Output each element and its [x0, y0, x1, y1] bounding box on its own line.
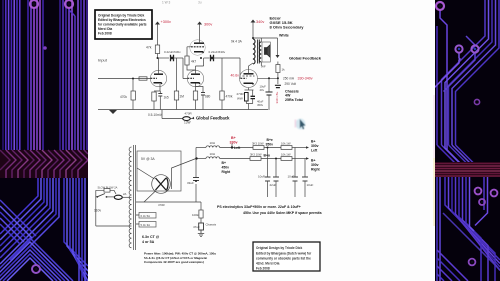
svg-text:for commercially available par: for commercially available parts: [98, 23, 147, 27]
svg-text:Left: Left: [234, 146, 241, 150]
svg-text:B+e: B+e: [267, 138, 273, 142]
svg-text:330 v B+: 330 v B+: [275, 91, 279, 103]
svg-text:6.3v CT @: 6.3v CT @: [142, 235, 160, 239]
svg-text:9k 4 3A: 9k 4 3A: [231, 40, 243, 44]
svg-text:470R: 470R: [185, 112, 193, 116]
svg-text:Components 42-18UT are good ex: Components 42-18UT are good examples): [144, 260, 204, 264]
svg-text:42nd. Merci Dia: 42nd. Merci Dia: [256, 262, 280, 266]
svg-text:100k: 100k: [192, 213, 199, 217]
svg-text:1k5: 1k5: [164, 96, 169, 100]
svg-text:Edited by Bhargava (Dutch www): Edited by Bhargava (Dutch www) for: [256, 252, 312, 256]
svg-text:Global Feedback: Global Feedback: [289, 56, 322, 61]
svg-text:Chassis: Chassis: [206, 223, 217, 227]
svg-text:470R: 470R: [158, 203, 165, 207]
svg-text:10uF: 10uF: [258, 175, 265, 179]
svg-text:4k7: 4k7: [191, 60, 196, 64]
svg-text:110v: 110v: [94, 208, 101, 212]
svg-text:270R: 270R: [237, 92, 245, 96]
svg-text:B+: B+: [311, 159, 315, 163]
svg-text:Original Design by Triode Dick: Original Design by Triode Dick: [98, 14, 144, 18]
svg-text:1k: 1k: [282, 68, 286, 72]
svg-text:Feb 2008: Feb 2008: [98, 32, 112, 36]
svg-text:10H: 10H: [210, 141, 216, 145]
svg-text:680: 680: [205, 95, 211, 99]
svg-text:Right: Right: [311, 168, 321, 172]
svg-text:3K3 10W: 3K3 10W: [252, 142, 264, 146]
svg-text:Edited by Bhargava Electronics: Edited by Bhargava Electronics: [98, 18, 146, 22]
svg-text:Left: Left: [311, 149, 318, 153]
svg-text:+300v: +300v: [161, 20, 172, 24]
svg-text:WW: WW: [237, 97, 243, 101]
svg-text:0.22uF/630v: 0.22uF/630v: [209, 50, 226, 54]
svg-text:Feb 2008: Feb 2008: [256, 267, 270, 271]
svg-text:10k 1W: 10k 1W: [281, 153, 291, 157]
svg-text:B+: B+: [222, 161, 226, 165]
svg-text:B+o: B+o: [264, 154, 271, 158]
svg-text:450v: 450v: [222, 166, 230, 170]
svg-text:SLOW BLOW 2A: SLOW BLOW 2A: [98, 185, 118, 189]
svg-text:5V @ 3A: 5V @ 3A: [141, 157, 155, 161]
svg-text:40.6v: 40.6v: [231, 74, 240, 78]
svg-text:290 Volt: 290 Volt: [285, 82, 297, 86]
svg-text:Input: Input: [98, 58, 108, 63]
svg-text:White: White: [279, 34, 289, 38]
svg-text:450v. Use you 440v Solen MKP i: 450v. Use you 440v Solen MKP if space pe…: [243, 211, 322, 215]
svg-text:B+: B+: [231, 136, 236, 140]
svg-text:4 or 5A: 4 or 5A: [142, 240, 155, 244]
svg-text:10k 1W: 10k 1W: [281, 142, 291, 146]
svg-text:5.0v 3A: 5.0v 3A: [141, 223, 151, 227]
svg-text:250 mA: 250 mA: [283, 76, 295, 80]
svg-text:Merci Dia: Merci Dia: [98, 27, 112, 31]
svg-text:40v: 40v: [260, 88, 265, 92]
svg-text:10uF: 10uF: [307, 183, 314, 187]
svg-text:330v: 330v: [230, 141, 238, 145]
svg-text:340v: 340v: [256, 20, 264, 24]
svg-text:470k: 470k: [226, 95, 233, 99]
svg-text:0.22uF/630v: 0.22uF/630v: [164, 50, 181, 54]
svg-text:330-340v: 330-340v: [298, 77, 313, 81]
svg-text:10H: 10H: [210, 152, 216, 156]
svg-text:community or obsolete parts li: community or obsolete parts list the: [256, 257, 311, 261]
svg-text:Original Design by Triode Dick: Original Design by Triode Dick: [256, 246, 302, 250]
svg-text:8 Ohm Secondary: 8 Ohm Secondary: [270, 25, 305, 30]
svg-text:350v: 350v: [266, 143, 274, 147]
svg-text:2A: 2A: [123, 192, 127, 196]
svg-text:WF: WF: [261, 65, 266, 69]
svg-text:25Ra Total: 25Ra Total: [285, 98, 303, 102]
svg-text:PS electrolytics 33uF+500v or: PS electrolytics 33uF+500v or more. 22uF…: [217, 205, 301, 209]
svg-text:B+: B+: [311, 140, 315, 144]
svg-text:6.3v 5A: 6.3v 5A: [141, 214, 151, 218]
svg-text:13W: 13W: [184, 121, 191, 125]
svg-text:300v: 300v: [311, 163, 319, 167]
svg-text:47uF: 47uF: [193, 225, 200, 229]
svg-text:3u: 3u: [198, 0, 202, 4]
svg-text:10uF: 10uF: [288, 175, 295, 179]
svg-text:Global Feedback: Global Feedback: [196, 115, 230, 120]
svg-text:1 W 3: 1 W 3: [162, 0, 171, 4]
svg-text:3K3 10W: 3K3 10W: [250, 153, 262, 157]
svg-text:22uF: 22uF: [270, 183, 277, 187]
svg-text:Right: Right: [222, 170, 232, 174]
svg-text:33uF: 33uF: [187, 181, 194, 185]
svg-text:470k: 470k: [120, 95, 127, 99]
svg-text:450v: 450v: [257, 103, 264, 107]
svg-text:0.5-10mV: 0.5-10mV: [148, 113, 163, 117]
svg-text:300v: 300v: [204, 23, 212, 27]
svg-text:1M: 1M: [180, 95, 185, 99]
svg-text:47k: 47k: [146, 46, 152, 50]
svg-text:300v: 300v: [311, 144, 319, 148]
